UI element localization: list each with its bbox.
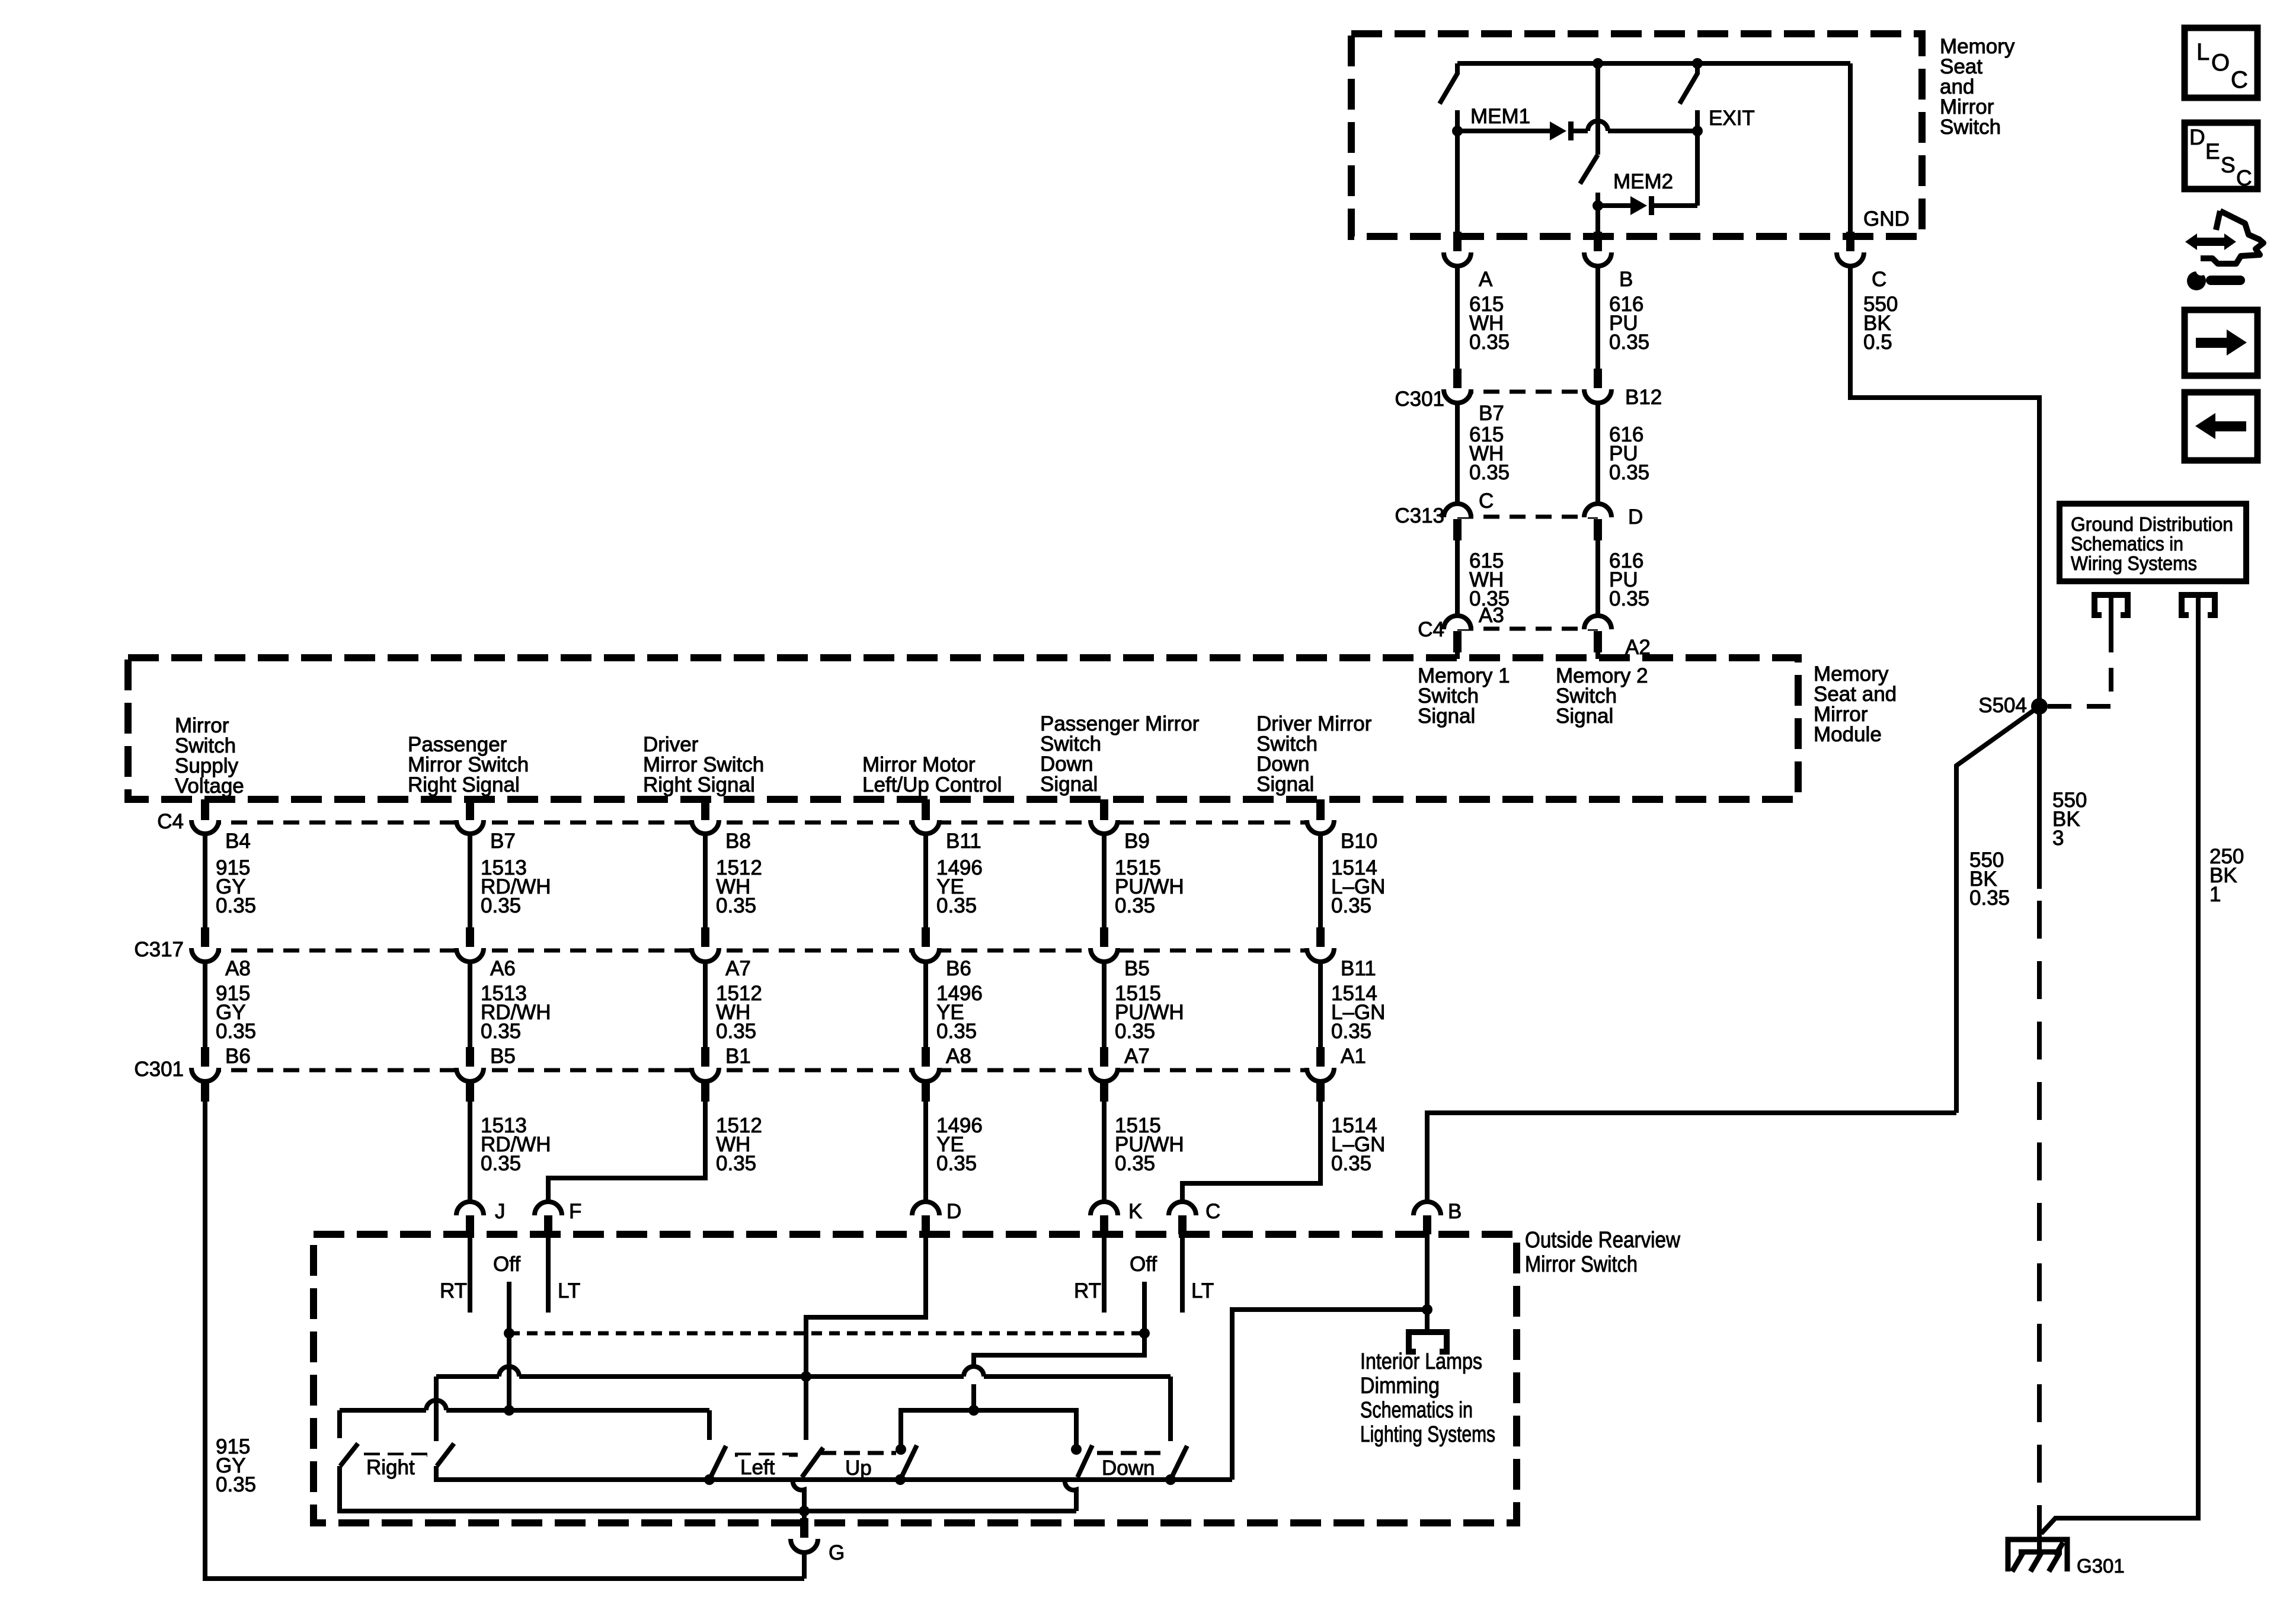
wire 250 BK 1 [2041,595,2198,1534]
svg-text:0.35: 0.35 [1969,886,2010,910]
wire L4a bus [340,1400,709,1410]
svg-text:B9: B9 [1124,830,1150,853]
svg-text:Signal: Signal [1418,705,1475,728]
wire L4b bus [901,1410,1076,1449]
wire label 1512 WH 0.35 (a) [716,856,762,917]
label Memory 1 Switch Signal [1418,664,1510,728]
connector C4 pin A2 [1584,616,1611,652]
wire G to bottom run [802,1553,807,1579]
icon DESC box [2185,123,2257,190]
node Up fixed contact [896,1444,906,1455]
svg-text:EXIT: EXIT [1709,107,1755,130]
svg-text:0.35: 0.35 [716,1152,756,1175]
wire 1512 jog to F [548,1081,705,1202]
wire Right switch left leg lower [340,1466,1076,1511]
wire LT throw (F) [546,1234,551,1313]
svg-text:MEM1: MEM1 [1470,105,1530,128]
ground G301 [2008,1537,2067,1571]
node Off left [504,1328,514,1339]
wire L3 right leg (Down switch right fixed) [1168,1377,1173,1441]
node Down blade pivot [1165,1474,1176,1485]
svg-text:Module: Module [1814,723,1882,746]
wire diode to EXIT node with hop [1573,121,1697,131]
connector pin J [456,1202,484,1234]
connector pin B [1584,232,1611,266]
label Interior Lamps Dimming Schematics in Lighting Systems [1360,1349,1495,1447]
wire label 1515 PU/WH 0.35 (a) [1115,856,1184,917]
svg-text:0.35: 0.35 [1115,1020,1155,1043]
C317 dotted connector line [205,949,1320,953]
wire label 1512 WH 0.35 (b) [716,982,762,1043]
svg-text:B: B [1448,1200,1462,1223]
C313 dotted connector line [1457,515,1598,519]
svg-text:A3: A3 [1479,604,1504,627]
switch blade Down (left) [1077,1445,1092,1477]
svg-text:Mirror Switch: Mirror Switch [1525,1252,1638,1277]
svg-text:Off: Off [493,1253,520,1276]
wire 615 seg2 [1455,403,1460,505]
wire D branch [806,1234,926,1377]
connector C301 pin B5 [456,1047,484,1081]
node EXIT junction [1692,126,1703,136]
wire 615 seg1 [1455,266,1460,369]
svg-text:Left/Up Control: Left/Up Control [862,773,1002,796]
svg-text:B11: B11 [946,830,981,853]
module pin stub col 793 [466,799,474,821]
svg-text:L: L [2196,39,2209,65]
svg-text:Outside Rearview: Outside Rearview [1525,1228,1680,1253]
wire MEM2 to diode [1598,203,1630,208]
label Outside Rearview Mirror Switch [1525,1228,1680,1277]
svg-text:0.35: 0.35 [936,1152,977,1175]
svg-text:S: S [2221,153,2236,177]
wire label 615 WH 0.35 (3) [1469,549,1510,610]
label Driver Mirror Switch Down Signal [1256,712,1372,796]
svg-text:Right: Right [366,1456,415,1479]
switch blade Right (left) [340,1443,358,1466]
svg-text:Signal: Signal [1040,773,1098,796]
switch MEM2 [1580,63,1598,206]
wire switch common bus [436,1466,1232,1480]
wire label 1513 RD/WH 0.35 (c) [481,1114,551,1175]
node MEM2 junction [1593,200,1603,211]
wire 1496 seg C4-C317 [923,834,928,927]
svg-text:1: 1 [2209,883,2221,906]
wire MEM1 to diode [1457,129,1550,133]
svg-text:Schematics in: Schematics in [2071,533,2183,555]
Memory Seat and Mirror Module box [128,658,1798,799]
wire top bus [1457,61,1850,66]
node D branch / L3 [801,1371,811,1382]
connector pin A [1444,232,1471,266]
switch blade Right (right) [437,1443,454,1466]
svg-text:Right Signal: Right Signal [408,773,520,796]
svg-text:0.35: 0.35 [481,1020,521,1043]
wire 1496 to D [923,1081,928,1202]
svg-text:A1: A1 [1341,1045,1366,1068]
wire 1515 to K [1102,1081,1107,1202]
wire 1513 seg C317-C301 [468,962,472,1047]
module pin stub col 1562 [922,799,930,821]
svg-text:0.35: 0.35 [716,894,756,917]
svg-text:0.35: 0.35 [1469,331,1510,354]
wire label 1515 PU/WH 0.35 (c) [1115,1114,1184,1175]
wire Off left vertical [507,1282,511,1410]
svg-text:C313: C313 [1395,504,1444,527]
svg-text:B: B [1619,268,1633,291]
svg-text:0.35: 0.35 [216,1473,256,1496]
wire 1514 seg C4-C317 [1318,834,1323,927]
label Right [364,1455,427,1479]
off-page bracket right (Ground Distribution) [2182,595,2215,615]
label Passenger Mirror Switch Down Signal [1040,712,1200,796]
C301 dotted connector line [1457,390,1598,394]
connector C301 pin B1 [692,1047,719,1081]
connector C301 pin B6 [191,1047,219,1081]
label Left [738,1455,789,1479]
connector pin K [1091,1202,1118,1234]
wire RT throw (K) [1102,1234,1107,1313]
svg-text:C301: C301 [1395,388,1444,411]
label Driver Mirror Switch Right Signal [643,733,764,796]
svg-text:A7: A7 [725,957,751,980]
svg-text:Interior Lamps: Interior Lamps [1360,1349,1482,1374]
connector pin C [1169,1202,1196,1234]
svg-text:S504: S504 [1978,694,2027,717]
svg-text:0.35: 0.35 [216,894,256,917]
svg-text:Voltage: Voltage [175,774,244,798]
wire label 915 GY 0.35 (a) [216,856,256,917]
svg-text:Up: Up [845,1457,872,1480]
connector C4 pin B9 [1091,799,1118,834]
wire label 550 BK 0.35 [1969,849,2010,910]
node Off right [1139,1328,1150,1339]
wire L3 bus [436,1366,1171,1377]
svg-text:B8: B8 [725,830,751,853]
wire 616 seg2 [1595,403,1600,505]
wire label 915 GY 0.35 (bottom) [216,1435,256,1496]
svg-text:A6: A6 [490,957,516,980]
svg-text:RT: RT [1074,1279,1101,1302]
wire label 250 BK 1 [2209,845,2244,906]
module pin stub col 2228 [1316,799,1325,821]
connector pin G [791,1518,818,1553]
svg-text:Dimming: Dimming [1360,1374,1440,1398]
wire label 550 BK 0.5 [1863,293,1898,354]
wire label 616 PU 0.35 (3) [1609,549,1649,610]
svg-text:B1: B1 [725,1045,751,1068]
icon LOC box [2185,28,2257,98]
label Up [843,1456,872,1480]
svg-text:0.35: 0.35 [716,1020,756,1043]
node S504 [2031,698,2048,715]
Ground Distribution Schematics box [2060,504,2246,581]
connector C4 pin B4 [191,799,219,834]
svg-text:D: D [1628,505,1643,529]
connector pin F [535,1202,562,1234]
svg-text:K: K [1128,1200,1142,1223]
wire 1514 jog to C [1182,1081,1320,1202]
wire 915 GY long run to G [205,1081,804,1579]
wire label 1512 WH 0.35 (c) [716,1114,762,1175]
wire 550 BK 3 solid part [2037,706,2042,889]
wire L3 left leg (Right switch fixed) [434,1377,439,1441]
dotted Off link line [509,1331,1144,1336]
svg-text:F: F [569,1200,581,1223]
svg-text:Ground Distribution: Ground Distribution [2071,513,2233,535]
switch blade Up [900,1445,917,1480]
wire 1512 seg C317-C301 [703,962,708,1047]
svg-text:LT: LT [1191,1279,1214,1302]
label Passenger Mirror Switch Right Signal [408,733,529,796]
wire 1514 seg C317-C301 [1318,962,1323,1047]
connector C4 pin B8 [692,799,719,834]
dashed throw Right [364,1453,430,1457]
wire 616 seg3 [1595,539,1600,617]
Outside Rearview Mirror Switch box [314,1234,1517,1523]
node ground bus / lower link [799,1506,810,1516]
svg-text:B10: B10 [1341,830,1377,853]
wire 1513 seg C4-C317 [468,834,472,927]
svg-text:C: C [2231,67,2248,93]
svg-text:LT: LT [558,1279,580,1302]
icon adjustable component (arrow + outline + wrench) [2185,211,2263,290]
wire A2 pin to module [1595,651,1600,659]
module pin stub col 1190 [701,799,709,821]
svg-text:0.35: 0.35 [1609,587,1649,610]
connector C317 pin B6 [912,927,939,962]
wire 550 BK 0.35 to B [1427,1113,1956,1202]
wire label 1496 YE 0.35 (b) [936,982,983,1043]
dashed throw Left [735,1453,798,1457]
wire 915 seg C317-C301 [203,962,207,1047]
connector C4 pin A3 [1444,616,1471,652]
wire Down pivot curl to lower link [1065,1480,1076,1511]
dashed wire S504 to Ground Distribution bracket [2048,627,2111,706]
svg-text:Right Signal: Right Signal [643,773,755,796]
svg-text:D: D [946,1200,961,1223]
switch MEM1 [1440,63,1457,131]
node Off right / L4b [968,1405,979,1416]
svg-text:0.35: 0.35 [1331,894,1371,917]
wire label 615 WH 0.35 [1469,293,1510,354]
connector pin C [1837,232,1864,266]
svg-text:0.35: 0.35 [1609,331,1649,354]
label Mirror Motor Left/Up Control [862,753,1002,796]
node Down fixed contact [1071,1444,1082,1455]
svg-text:0.35: 0.35 [936,894,977,917]
svg-text:0.35: 0.35 [481,894,521,917]
module pin stub col 1863 [1100,799,1108,821]
svg-text:Switch: Switch [1940,116,2001,139]
Memory Seat and Mirror Switch box [1351,34,1922,236]
wire EXIT leg vertical [1695,131,1700,206]
wire Off right route [974,1333,1144,1369]
connector C4 pin B10 [1307,799,1334,834]
wire label 1515 PU/WH 0.35 (b) [1115,982,1184,1043]
wire label 616 PU 0.35 [1609,293,1649,354]
svg-text:0.5: 0.5 [1863,331,1892,354]
wire 1515 seg C4-C317 [1102,834,1107,927]
wire 615 seg3 [1455,539,1460,617]
svg-text:E: E [2205,139,2220,164]
svg-text:GND: GND [1863,207,1910,231]
svg-text:Signal: Signal [1556,705,1613,728]
svg-text:J: J [495,1200,506,1223]
svg-text:0.35: 0.35 [216,1020,256,1043]
svg-text:MEM2: MEM2 [1613,170,1673,193]
C301 dotted connector line [205,1068,1320,1073]
connector C4 pin B7 [456,799,484,834]
svg-text:Off: Off [1130,1253,1157,1276]
wire 550 BK 0.5 run [1850,266,2039,706]
svg-text:0.35: 0.35 [1331,1152,1371,1175]
diode MEM1 [1550,121,1574,140]
connector C301 pin B7 [1444,369,1471,403]
wire label 616 PU 0.35 (2) [1609,423,1649,484]
switch blade Left [709,1446,726,1480]
wire label 1496 YE 0.35 (a) [936,856,983,917]
node Off left / L4a [504,1405,514,1416]
svg-text:C: C [2236,166,2252,190]
svg-text:RT: RT [440,1279,467,1302]
svg-text:Down: Down [1102,1457,1155,1480]
switch EXIT [1680,63,1697,131]
svg-text:C317: C317 [134,938,184,961]
svg-text:C: C [1479,489,1494,513]
connector C317 pin B11 [1307,927,1334,962]
off-page bracket Interior Lamps [1409,1332,1447,1352]
node B branch [1422,1304,1432,1315]
wire Up pivot curl to ground line [793,1480,804,1511]
wire B branch to junction [1425,1234,1430,1333]
wire label 615 WH 0.35 (2) [1469,423,1510,484]
svg-text:B6: B6 [946,957,971,980]
svg-text:C4: C4 [1418,618,1444,641]
wire MEM1 node to pin A [1455,131,1460,236]
connector pin D [912,1202,939,1234]
connector C317 pin A6 [456,927,484,962]
svg-text:0.35: 0.35 [1331,1020,1371,1043]
wire 1496 seg C317-C301 [923,962,928,1047]
svg-text:B11: B11 [1341,957,1376,980]
svg-text:G301: G301 [2077,1555,2125,1577]
svg-text:C301: C301 [134,1058,184,1081]
wire label 1513 RD/WH 0.35 (b) [481,982,551,1043]
connector C313 pin C [1444,504,1471,540]
wire label 1514 L–GN 0.35 (c) [1331,1114,1385,1175]
wire label 1513 RD/WH 0.35 (a) [481,856,551,917]
svg-text:0.35: 0.35 [1115,1152,1155,1175]
wire GND leg [1848,63,1853,236]
svg-text:B5: B5 [1124,957,1150,980]
wire label 1514 L–GN 0.35 (b) [1331,982,1385,1043]
switch blade center (Left/Up) [802,1448,823,1477]
wire RT throw (J) [468,1234,472,1313]
label Down [1099,1456,1155,1480]
svg-text:0.35: 0.35 [1115,894,1155,917]
svg-text:0.35: 0.35 [936,1020,977,1043]
svg-text:B7: B7 [1479,402,1504,425]
node MEM1 junction [1452,126,1463,136]
wire Off right vertical [1142,1282,1147,1333]
label Memory Seat and Mirror Module [1814,662,1897,746]
icon arrow-right box [2185,310,2257,376]
svg-text:B6: B6 [225,1045,251,1068]
module pin stub col 346 [201,799,209,821]
wire L4a left leg (Right switch left fixed) [337,1410,342,1438]
node Up blade pivot [895,1474,906,1485]
svg-text:Lighting Systems: Lighting Systems [1360,1422,1495,1447]
off-page bracket left (Ground Distribution) [2094,595,2128,629]
wire 1515 seg C317-C301 [1102,962,1107,1047]
svg-text:B4: B4 [225,830,251,853]
wire label 1496 YE 0.35 (c) [936,1114,983,1175]
connector C317 pin B5 [1091,927,1118,962]
svg-text:A7: A7 [1124,1045,1150,1068]
node Left blade pivot [704,1474,715,1485]
C4 dotted connector line [1457,627,1598,631]
connector C301 pin B12 [1584,369,1611,403]
label Mirror Switch Supply Voltage [175,714,244,798]
svg-text:A8: A8 [946,1045,971,1068]
label Memory Seat and Mirror Switch [1940,35,2015,139]
svg-text:D: D [2189,125,2205,149]
svg-text:C: C [1872,268,1886,291]
diode MEM2 [1630,196,1654,215]
wire 550 BK 3 dashed part [2037,901,2042,1552]
wire S504 to splice branch diagonal [1956,706,2039,1113]
svg-text:Left: Left [740,1456,775,1479]
svg-text:A: A [1479,268,1493,291]
svg-text:A8: A8 [225,957,251,980]
switch blade Down (right) [1171,1446,1187,1480]
wire 1513 to J [468,1081,472,1202]
wire diode to EXIT leg [1654,203,1697,208]
svg-text:0.35: 0.35 [1469,461,1510,484]
connector C313 pin D [1584,504,1611,540]
connector C301 pin A8 [912,1047,939,1081]
svg-text:3: 3 [2052,827,2064,850]
label Memory 2 Switch Signal [1556,664,1648,728]
wire label 550 BK 3 [2052,789,2087,850]
wire MEM2 node to pin B [1595,206,1600,236]
icon arrow-left box [2185,392,2257,460]
wire label 1514 L–GN 0.35 (a) [1331,856,1385,917]
svg-text:Wiring Systems: Wiring Systems [2071,552,2197,574]
svg-text:C: C [1205,1200,1220,1223]
wire 915 seg C4-C317 [203,834,207,927]
svg-text:0.35: 0.35 [481,1152,521,1175]
svg-text:O: O [2211,50,2230,76]
svg-text:G: G [829,1541,845,1564]
wire LT throw (C) [1180,1234,1185,1313]
connector C317 pin A8 [191,927,219,962]
wire dimmer feed [1232,1310,1427,1480]
svg-text:C4: C4 [157,810,184,833]
node top bus / EXIT branch [1692,58,1703,69]
svg-text:B5: B5 [490,1045,516,1068]
dashed throw Down [1097,1451,1166,1455]
connector C301 pin A1 [1307,1047,1334,1081]
label Ground Distribution Schematics in Wiring Systems [2071,513,2233,574]
connector pin B [1414,1202,1441,1234]
svg-text:B7: B7 [490,830,516,853]
connector C317 pin A7 [692,927,719,962]
wire label 915 GY 0.35 (b) [216,982,256,1043]
wire A3 pin to module [1455,651,1460,659]
node top bus / MEM2 branch [1593,58,1603,69]
